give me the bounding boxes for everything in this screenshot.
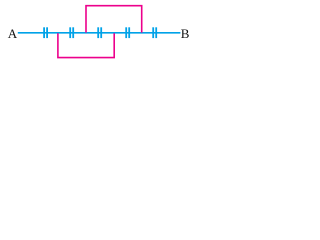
capacitor C5 (153, 27, 156, 38)
capacitor C4 (126, 27, 129, 38)
svg-text:B: B (181, 26, 190, 41)
capacitor C3 (98, 27, 101, 38)
wire A to B (18, 32, 181, 34)
wire: bottom jumper loop (58, 33, 114, 57)
capacitor C1 (44, 27, 47, 38)
capacitor C2 (70, 27, 73, 38)
wire: top jumper loop (86, 6, 142, 33)
svg-text:A: A (8, 26, 18, 41)
